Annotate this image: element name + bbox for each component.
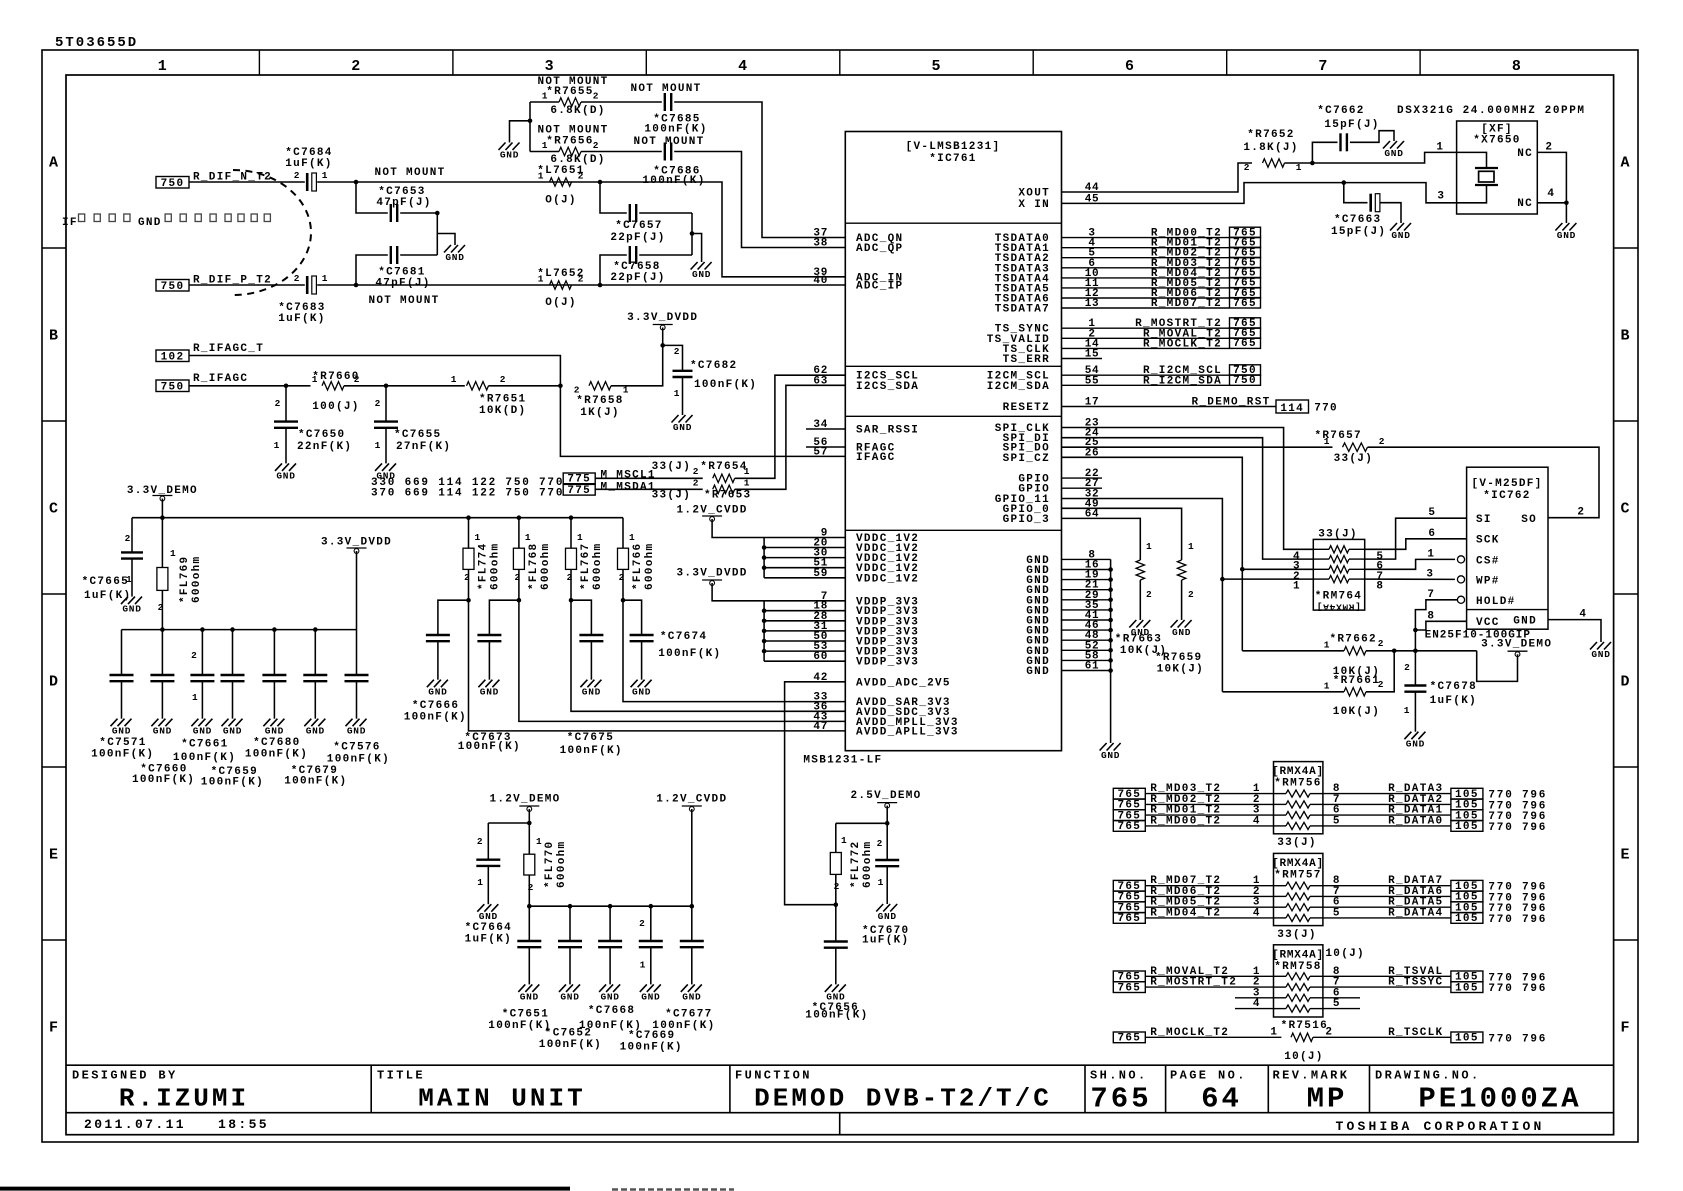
svg-text:100nF(K): 100nF(K) (642, 175, 705, 187)
junction (762, 629, 767, 634)
resistor array RM757 (1272, 853, 1324, 925)
pin 29 GND (1026, 590, 1099, 608)
ground (1129, 620, 1150, 638)
svg-text:7: 7 (1318, 58, 1328, 75)
svg-text:MSB1231-LF: MSB1231-LF (803, 755, 882, 767)
junction (1108, 567, 1113, 572)
svg-text:770: 770 (1314, 403, 1338, 415)
net R_MD06_T2 (1113, 886, 1273, 904)
svg-text:GND: GND (428, 687, 447, 698)
svg-text:2: 2 (674, 346, 680, 357)
wire (317, 284, 600, 286)
svg-text:100nF(K): 100nF(K) (284, 776, 347, 788)
capacitor C7657 (610, 204, 665, 244)
capacitor C bank1 5 (303, 630, 327, 719)
wire (600, 182, 627, 213)
wire (639, 254, 692, 256)
pin 16 GND (1026, 560, 1099, 578)
svg-text:GND: GND (520, 991, 539, 1002)
wire (356, 255, 388, 285)
svg-text:X IN: X IN (1018, 199, 1050, 211)
ground (346, 719, 367, 737)
svg-text:6.8K(D): 6.8K(D) (550, 105, 605, 117)
svg-text:GND: GND (1172, 627, 1191, 638)
svg-text:M_MSDA1: M_MSDA1 (601, 481, 656, 493)
pin 57 IFAGC (813, 446, 895, 464)
wire (189, 181, 305, 183)
svg-text:1: 1 (1404, 705, 1410, 716)
svg-text:33(J): 33(J) (652, 490, 692, 502)
svg-text:100nF(K): 100nF(K) (644, 124, 707, 136)
ferrite bead FL767 (566, 518, 605, 601)
wire (1062, 670, 1111, 672)
resistor R7653 (652, 478, 752, 502)
resistor R7516 (1270, 1020, 1332, 1063)
capacitor C7682 (663, 345, 758, 415)
ground (375, 463, 396, 481)
junction (568, 904, 573, 909)
capacitor C bank1 1 (150, 630, 174, 719)
svg-text:IF: IF (62, 217, 78, 229)
pin 58 GND (1026, 650, 1099, 668)
wire (161, 499, 163, 518)
net R_MD03_T2 (1062, 258, 1230, 270)
capacitor C7669 (639, 906, 663, 984)
net R_MOSTRT_T2 (1113, 977, 1273, 995)
svg-text:5: 5 (1333, 998, 1340, 1010)
svg-text:1.8K(J): 1.8K(J) (1243, 142, 1298, 154)
svg-text:A: A (1620, 155, 1630, 172)
svg-text:3: 3 (1426, 568, 1433, 580)
pin 62 I2CS_SCL (813, 365, 919, 383)
svg-text:100(J): 100(J) (312, 401, 359, 413)
svg-text:15pF(J): 15pF(J) (1331, 226, 1386, 238)
pin 47 AVDD_APLL_3V3 (813, 721, 958, 739)
wire (400, 212, 437, 214)
wire (469, 600, 846, 731)
power 2.5V_DEMO (850, 790, 921, 808)
svg-text:*C7680: *C7680 (253, 737, 300, 749)
wire (1062, 438, 1314, 559)
net R_MD05_T2 (1113, 897, 1273, 915)
svg-text:2: 2 (464, 572, 470, 583)
dashed tuner boundary (233, 170, 311, 295)
ground (1100, 743, 1121, 761)
svg-text:6: 6 (1125, 58, 1135, 75)
svg-text:1: 1 (322, 170, 328, 181)
svg-text:FUNCTION: FUNCTION (735, 1069, 812, 1083)
svg-text:F: F (49, 1020, 59, 1037)
svg-text:8: 8 (1376, 581, 1383, 593)
svg-text:TS_ERR: TS_ERR (1003, 354, 1050, 366)
svg-text:O(J): O(J) (545, 297, 577, 309)
net M_MSDA1 (563, 481, 656, 497)
capacitor C bank1 6 (345, 630, 369, 719)
junction (466, 515, 471, 520)
svg-text:1: 1 (451, 374, 457, 385)
svg-text:*C7668: *C7668 (588, 1005, 635, 1017)
junction (1108, 587, 1113, 592)
svg-text:33(J): 33(J) (1318, 529, 1358, 541)
svg-text:4: 4 (1253, 907, 1260, 919)
net R_MOVAL_T2 (1113, 966, 1273, 984)
net R_MD03_T2 (1113, 783, 1273, 801)
svg-text:*IC761: *IC761 (929, 153, 976, 165)
svg-text:GND: GND (1384, 148, 1403, 159)
svg-text:4: 4 (1253, 998, 1260, 1010)
net R_MOCLK_T2 (1062, 338, 1230, 350)
svg-text:22pF(J): 22pF(J) (610, 232, 665, 244)
svg-text:105: 105 (1455, 821, 1479, 833)
capacitor C7670 (862, 823, 909, 946)
svg-text:8: 8 (1512, 58, 1522, 75)
pin 46 GND (1026, 620, 1099, 638)
wire (489, 600, 519, 635)
junction (762, 619, 767, 624)
junction (313, 627, 318, 632)
wire (1181, 580, 1183, 620)
wire (764, 567, 845, 569)
junction (569, 598, 574, 603)
ground (121, 597, 142, 615)
svg-text:105: 105 (1455, 1033, 1479, 1045)
wire (682, 377, 684, 415)
svg-text:600ohm: 600ohm (556, 841, 568, 888)
svg-text:750: 750 (161, 281, 185, 293)
pin 35 GND (1026, 600, 1099, 618)
net R_MD07_T2 (1062, 298, 1230, 310)
svg-text:GND: GND (347, 726, 366, 737)
svg-text:15pF(J): 15pF(J) (1324, 119, 1379, 131)
svg-text:4: 4 (1579, 609, 1586, 621)
svg-text:33(J): 33(J) (652, 461, 692, 473)
ground (427, 680, 448, 698)
resistor R7652 (1243, 129, 1302, 173)
pin 4 TSDATA1 (995, 238, 1096, 256)
svg-text:GND: GND (1391, 230, 1410, 241)
wire 3.3V_DEMO rail (132, 517, 623, 519)
net R_MD07_T2 (1113, 875, 1273, 893)
svg-text:2: 2 (294, 170, 300, 181)
svg-text:RESETZ: RESETZ (1003, 402, 1050, 414)
capacitor C7666 (404, 635, 467, 724)
svg-text:DRAWING.NO.: DRAWING.NO. (1375, 1069, 1481, 1083)
svg-text:*FL769: *FL769 (179, 556, 191, 603)
ground (304, 719, 325, 737)
wire (510, 121, 531, 143)
svg-text:3: 3 (1437, 191, 1444, 203)
pin 33 AVDD_SAR_3V3 (813, 692, 950, 710)
capacitor C7677 (680, 906, 704, 984)
wire (530, 101, 559, 103)
net R_MD02_T2 (1062, 248, 1230, 260)
pin 26 SPI_CZ (1003, 447, 1100, 465)
resistor R7658 (574, 382, 629, 419)
pin 61 GND (1026, 661, 1099, 679)
svg-text:4: 4 (1253, 815, 1260, 827)
ground (1555, 223, 1576, 241)
svg-text:2: 2 (1146, 589, 1152, 600)
ground (559, 984, 580, 1002)
wire (1414, 692, 1416, 732)
svg-text:1: 1 (1427, 548, 1434, 560)
svg-text:*FL768: *FL768 (528, 543, 540, 590)
svg-text:GND: GND (673, 422, 692, 433)
wire (189, 284, 305, 286)
svg-text:2: 2 (500, 374, 506, 385)
pin 51 VDDC_1V2 (813, 558, 919, 576)
ground (876, 904, 897, 922)
wire (764, 557, 845, 559)
svg-text:2: 2 (877, 838, 883, 849)
junction (200, 627, 205, 632)
wire (764, 630, 845, 632)
pin 56 RFAGC (806, 437, 896, 455)
wire (1062, 589, 1111, 591)
svg-text:1: 1 (126, 574, 132, 585)
svg-text:4: 4 (1547, 188, 1554, 200)
ground (275, 463, 296, 481)
capacitor C7665 (82, 518, 143, 602)
net R_DIF_P_T2 (156, 275, 272, 293)
svg-text:5: 5 (1333, 815, 1340, 827)
wire (622, 518, 624, 549)
svg-text:*C7678: *C7678 (1430, 681, 1477, 693)
svg-text:2: 2 (354, 374, 360, 385)
wire (1415, 600, 1457, 651)
wire (1366, 651, 1394, 692)
wire (530, 151, 559, 153)
wire (674, 152, 845, 248)
ground (1383, 141, 1404, 159)
svg-text:*FL767: *FL767 (580, 543, 592, 590)
pin 60 VDDP_3V3 (813, 651, 919, 669)
svg-text:*R7653: *R7653 (704, 490, 751, 502)
svg-text:*C7669: *C7669 (628, 1030, 675, 1042)
junction (527, 821, 532, 826)
IC IC762 V-M25DF serial flash (1425, 467, 1587, 641)
wire (1537, 202, 1566, 204)
junction (1108, 668, 1113, 673)
svg-text:D: D (49, 674, 59, 691)
crystal X7650 (1436, 121, 1554, 214)
power 1.2V_DEMO (489, 794, 560, 812)
svg-text:2: 2 (693, 466, 699, 477)
svg-text:NC: NC (1517, 198, 1533, 210)
svg-text:1: 1 (744, 478, 750, 489)
svg-text:R_MD07_T2: R_MD07_T2 (1151, 298, 1222, 310)
svg-text:22pF(J): 22pF(J) (610, 272, 665, 284)
svg-text:NOT MOUNT: NOT MOUNT (633, 136, 704, 148)
capacitor C7663 (1331, 194, 1386, 238)
capacitor C7683 (278, 273, 328, 325)
capacitor C7653 (376, 186, 431, 222)
wire (571, 600, 591, 635)
wire (623, 600, 642, 635)
wire (356, 551, 358, 630)
svg-text:*FL770: *FL770 (544, 841, 556, 888)
wire (623, 600, 845, 701)
svg-text:33(J): 33(J) (1334, 453, 1374, 465)
ground (477, 904, 498, 922)
svg-text:XOUT: XOUT (1018, 188, 1050, 200)
svg-text:2: 2 (1378, 638, 1384, 649)
svg-text:SAR_RSSI: SAR_RSSI (856, 425, 919, 437)
svg-text:100nF(K): 100nF(K) (132, 774, 195, 786)
svg-text:2: 2 (477, 836, 483, 847)
svg-text:765: 765 (1090, 1083, 1151, 1116)
svg-text:1uF(K): 1uF(K) (1430, 695, 1477, 707)
pin 9 VDDC_1V2 (821, 528, 920, 546)
wire (1062, 629, 1111, 631)
svg-text:1: 1 (674, 388, 680, 399)
ground (681, 984, 702, 1002)
svg-text:*R7660: *R7660 (312, 371, 359, 383)
resistor R7654 (652, 461, 751, 483)
net R_MD02_T2 (1113, 794, 1273, 812)
svg-text:2: 2 (1188, 589, 1194, 600)
svg-text:*R7655: *R7655 (546, 86, 593, 98)
pin 53 VDDP_3V3 (813, 641, 919, 659)
svg-text:765: 765 (1233, 338, 1257, 350)
wire (131, 559, 133, 597)
svg-text:CS#: CS# (1476, 556, 1500, 568)
svg-text:GND: GND (1591, 649, 1610, 660)
pin 22 GPIO (1018, 468, 1102, 486)
junction (1108, 628, 1113, 633)
capacitor C7656 (805, 905, 868, 1022)
svg-text:*R7661: *R7661 (1333, 675, 1380, 687)
svg-text:DEMOD DVB-T2/T/C: DEMOD DVB-T2/T/C (754, 1084, 1052, 1114)
svg-text:*C7665: *C7665 (82, 576, 129, 588)
svg-text:[RMX4A]: [RMX4A] (1272, 766, 1324, 778)
ground (151, 719, 172, 737)
junction (1108, 577, 1113, 582)
svg-text:2: 2 (619, 572, 625, 583)
resistor R7651 (451, 374, 527, 417)
pin 54 I2CM_SCL (987, 365, 1100, 383)
svg-text:R_TSCLK: R_TSCLK (1388, 1027, 1443, 1039)
svg-text:GND: GND (306, 726, 325, 737)
ground (499, 143, 520, 161)
svg-text:*X7650: *X7650 (1473, 135, 1520, 147)
svg-text:2: 2 (574, 385, 580, 396)
svg-text:GND: GND (1101, 750, 1120, 761)
svg-text:1: 1 (475, 532, 481, 543)
power 3.3V_DEMO (1481, 639, 1552, 657)
svg-text:600ohm: 600ohm (592, 543, 604, 590)
svg-text:1.2V_CVDD: 1.2V_CVDD (656, 794, 727, 806)
pin 48 GND (1026, 630, 1099, 648)
svg-text:SPI_CZ: SPI_CZ (1003, 453, 1050, 465)
svg-text:2: 2 (639, 918, 645, 929)
svg-text:*C7662: *C7662 (1317, 105, 1364, 117)
svg-text:2: 2 (158, 602, 164, 613)
wire (1365, 559, 1455, 569)
wire (1368, 447, 1600, 518)
svg-text:NOT MOUNT: NOT MOUNT (374, 167, 445, 179)
wire (764, 610, 845, 612)
svg-text:M_MSCL1: M_MSCL1 (601, 470, 656, 482)
svg-text:105: 105 (1455, 913, 1479, 925)
svg-text:10(J): 10(J) (1325, 948, 1365, 960)
net R_DATA2 (1323, 794, 1547, 813)
junction (608, 904, 613, 909)
svg-text:GND: GND (641, 991, 660, 1002)
junction (569, 515, 574, 520)
wire (764, 650, 845, 652)
svg-text:2: 2 (125, 533, 131, 544)
junction (517, 598, 522, 603)
svg-text:2: 2 (567, 572, 573, 583)
wire (189, 385, 311, 387)
svg-text:VDDP_3V3: VDDP_3V3 (856, 657, 919, 669)
junction (1108, 618, 1113, 623)
ground (444, 245, 465, 263)
pin 30 VDDC_1V2 (813, 548, 919, 566)
svg-text:*R7662: *R7662 (1330, 634, 1377, 646)
svg-text:1: 1 (1324, 640, 1330, 651)
svg-text:750: 750 (1233, 375, 1257, 387)
svg-text:100nF(K): 100nF(K) (245, 749, 308, 761)
pin 13 TSDATA7 (995, 298, 1100, 316)
svg-text:GND: GND (1026, 666, 1050, 678)
svg-text:R_DATA4: R_DATA4 (1388, 907, 1443, 919)
wire (785, 682, 846, 905)
svg-text:AVDD_ADC_2V5: AVDD_ADC_2V5 (856, 677, 951, 689)
junction (384, 384, 389, 389)
wire (611, 345, 663, 385)
wire (764, 620, 845, 622)
svg-text:1: 1 (1270, 1027, 1277, 1039)
svg-text:64: 64 (1201, 1083, 1242, 1116)
svg-text:1.2V_DEMO: 1.2V_DEMO (489, 794, 560, 806)
svg-text:8: 8 (1427, 610, 1434, 622)
svg-text:GND: GND (479, 911, 498, 922)
power 3.3V_DEMO (127, 485, 198, 501)
svg-text:R.IZUMI: R.IZUMI (119, 1084, 249, 1114)
junction (160, 627, 165, 632)
pin 28 VDDP_3V3 (813, 611, 919, 629)
net R_I2CM_SCL (1062, 365, 1230, 377)
wire (1139, 580, 1141, 620)
svg-text:18:55: 18:55 (218, 1117, 269, 1132)
svg-text:*C7650: *C7650 (298, 429, 345, 441)
net R_DATA4 (1323, 907, 1547, 926)
wire (1062, 457, 1243, 651)
pin 20 VDDC_1V2 (813, 538, 919, 556)
capacitor C7658 (610, 246, 665, 284)
resistor array RM756 (1272, 762, 1324, 834)
svg-text:PE1000ZA: PE1000ZA (1418, 1083, 1581, 1116)
pin 32 GPIO_11 (995, 489, 1100, 507)
svg-text:GND: GND (122, 604, 141, 615)
svg-text:GND: GND (500, 150, 519, 161)
wire (1062, 163, 1253, 192)
svg-text:*C7677: *C7677 (665, 1009, 712, 1021)
resistor array RM758 (1272, 945, 1324, 1017)
wire (519, 600, 845, 721)
svg-text:1uF(K): 1uF(K) (285, 158, 332, 170)
net R_MD04_T2 (1062, 268, 1230, 280)
svg-text:VCC: VCC (1476, 617, 1500, 629)
svg-text:1: 1 (744, 466, 750, 477)
svg-text:[V-M25DF]: [V-M25DF] (1471, 478, 1542, 490)
svg-text:57: 57 (813, 446, 828, 458)
svg-text:*IC762: *IC762 (1483, 490, 1530, 502)
wire GND bus (1110, 559, 1112, 743)
wire (1366, 650, 1477, 652)
